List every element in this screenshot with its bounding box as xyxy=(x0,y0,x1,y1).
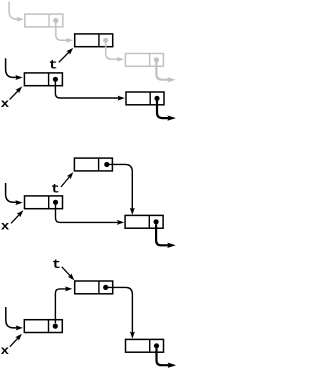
svg-text:x: x xyxy=(1,97,10,111)
svg-text:t: t xyxy=(51,183,60,197)
svg-text:x: x xyxy=(1,220,10,234)
svg-text:t: t xyxy=(52,258,61,272)
svg-text:x: x xyxy=(1,344,10,358)
svg-text:t: t xyxy=(49,59,58,73)
